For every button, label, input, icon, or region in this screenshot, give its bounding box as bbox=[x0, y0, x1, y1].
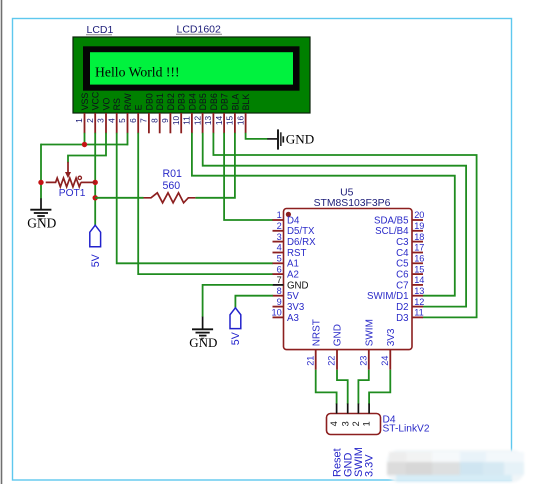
svg-text:10: 10 bbox=[271, 308, 281, 318]
U5 pin 15 stub bbox=[412, 273, 423, 275]
wire U5 pin21 NRST to connector bbox=[316, 370, 337, 404]
svg-text:1: 1 bbox=[74, 118, 84, 123]
connector pin 3 stub bbox=[347, 404, 349, 414]
resistor R01 560 bbox=[144, 193, 196, 203]
U5 pin 12 stub bbox=[412, 306, 423, 308]
U5 pin 24 stub bbox=[389, 350, 391, 370]
svg-text:DB7: DB7 bbox=[220, 93, 230, 110]
svg-text:POT1: POT1 bbox=[59, 188, 86, 199]
svg-text:STM8S103F3P6: STM8S103F3P6 bbox=[314, 198, 391, 209]
svg-text:4: 4 bbox=[106, 118, 116, 123]
svg-text:18: 18 bbox=[414, 232, 424, 242]
svg-text:SCL/B4: SCL/B4 bbox=[375, 226, 409, 237]
wire U5 5V pin8 to power bbox=[235, 296, 273, 308]
svg-text:19: 19 bbox=[414, 221, 424, 231]
svg-text:GND: GND bbox=[286, 131, 314, 146]
U5 pin 10 stub bbox=[273, 316, 284, 318]
LCD pin 10 stub bbox=[180, 113, 182, 133]
LCD pin 14 stub bbox=[223, 113, 225, 133]
LCD pin 13 stub bbox=[212, 113, 214, 133]
wire LCD pin6 E to U5 A2 bbox=[138, 133, 273, 274]
svg-text:5: 5 bbox=[277, 254, 282, 264]
power port 5V (right) bbox=[230, 308, 242, 345]
svg-text:3V3: 3V3 bbox=[386, 328, 397, 346]
svg-text:5V: 5V bbox=[287, 291, 299, 302]
svg-text:24: 24 bbox=[380, 356, 390, 366]
svg-text:2: 2 bbox=[277, 221, 282, 231]
svg-text:C3: C3 bbox=[396, 237, 408, 248]
svg-text:RST: RST bbox=[287, 248, 306, 259]
svg-text:VCC: VCC bbox=[91, 91, 101, 110]
ground GND (below U5) bbox=[189, 317, 217, 350]
svg-text:8: 8 bbox=[277, 286, 282, 296]
svg-text:C4: C4 bbox=[396, 248, 409, 259]
U5 pin 19 stub bbox=[412, 230, 423, 232]
svg-text:6: 6 bbox=[128, 118, 138, 123]
U5 pin 7 stub bbox=[273, 284, 284, 286]
svg-text:11: 11 bbox=[182, 116, 192, 125]
wire down to GND bbox=[40, 144, 42, 199]
svg-text:GND: GND bbox=[333, 324, 344, 346]
svg-text:15: 15 bbox=[225, 116, 235, 126]
wire LCD pin14 DB7 to U5 D4 bbox=[224, 133, 273, 220]
wire U5 pin24 3V3 to connector bbox=[369, 370, 390, 404]
svg-text:16: 16 bbox=[414, 254, 424, 264]
svg-text:GND: GND bbox=[287, 280, 309, 291]
wire LCD pin12 DB5 to U5 D2 bbox=[203, 133, 466, 307]
U5 pin 22 stub bbox=[336, 350, 338, 370]
svg-text:C6: C6 bbox=[396, 270, 408, 281]
LCD pin 9 stub bbox=[169, 113, 171, 133]
wire U5 pin23 SWIM to connector bbox=[358, 370, 368, 404]
svg-text:5V: 5V bbox=[90, 253, 102, 267]
svg-text:23: 23 bbox=[358, 356, 368, 366]
label LCD1 bbox=[86, 24, 114, 36]
svg-text:R01: R01 bbox=[163, 168, 183, 180]
svg-text:R/W: R/W bbox=[123, 93, 133, 111]
svg-text:GND: GND bbox=[189, 335, 217, 350]
svg-text:21: 21 bbox=[305, 356, 315, 366]
svg-text:16: 16 bbox=[235, 116, 245, 126]
svg-text:DB3: DB3 bbox=[177, 93, 187, 110]
svg-text:C7: C7 bbox=[396, 280, 408, 291]
svg-text:A1: A1 bbox=[287, 259, 299, 270]
wire GND net horizontal bbox=[41, 144, 128, 146]
svg-text:DB5: DB5 bbox=[198, 93, 208, 110]
junction dot POT1 left bbox=[38, 180, 43, 185]
svg-text:4: 4 bbox=[329, 421, 339, 426]
svg-text:NRST: NRST bbox=[311, 319, 322, 346]
window edge line bbox=[1, 0, 3, 484]
svg-text:SWIM/D1: SWIM/D1 bbox=[367, 291, 408, 302]
U5 pin1 indicator dot bbox=[286, 212, 291, 217]
U5 pin 4 stub bbox=[273, 252, 284, 254]
svg-text:5V: 5V bbox=[230, 331, 242, 345]
wire U5 GND pin7 to ground bbox=[203, 285, 273, 317]
svg-text:22: 22 bbox=[327, 356, 337, 366]
U5 pin 14 stub bbox=[412, 284, 423, 286]
wire LCD pin16 BLK to GND bbox=[246, 133, 268, 139]
U5 pin 18 stub bbox=[412, 241, 423, 243]
U5 pin 9 stub bbox=[273, 306, 284, 308]
svg-text:7: 7 bbox=[277, 275, 282, 285]
svg-text:560: 560 bbox=[163, 180, 181, 192]
svg-text:BLA: BLA bbox=[230, 94, 240, 111]
junction dot POT1 right bbox=[93, 180, 98, 185]
svg-text:VSS: VSS bbox=[80, 93, 90, 111]
svg-text:14: 14 bbox=[214, 116, 224, 126]
LCD pin 3 stub bbox=[105, 113, 107, 133]
svg-text:3: 3 bbox=[340, 421, 350, 426]
wire LCD pin5 R/W down bbox=[127, 133, 129, 146]
svg-text:5: 5 bbox=[117, 118, 127, 123]
wire U5 pin22 GND to connector bbox=[337, 370, 348, 404]
svg-text:E: E bbox=[134, 104, 144, 110]
svg-text:17: 17 bbox=[414, 243, 424, 253]
svg-text:8: 8 bbox=[149, 118, 159, 123]
svg-text:3: 3 bbox=[277, 232, 282, 242]
junction dot node VCC/R01 bbox=[93, 195, 98, 200]
connector D4 ST-LinkV2 body bbox=[327, 414, 381, 435]
svg-text:BLK: BLK bbox=[241, 94, 251, 111]
U5 pin 1 stub bbox=[273, 219, 284, 221]
LCD pin 12 stub bbox=[202, 113, 204, 133]
wire LCD pin2 VCC down to 5V bbox=[94, 133, 96, 225]
wire LCD pin3 VO to POT1 wiper bbox=[68, 133, 106, 163]
svg-text:SWIM: SWIM bbox=[364, 319, 375, 346]
svg-text:7: 7 bbox=[139, 118, 149, 123]
svg-text:2: 2 bbox=[351, 421, 361, 426]
svg-text:U5: U5 bbox=[340, 188, 354, 199]
LCD pin 8 stub bbox=[159, 113, 161, 133]
svg-text:RS: RS bbox=[112, 98, 122, 110]
connector pin 4 stub bbox=[336, 404, 338, 414]
LCD pin 4 stub bbox=[116, 113, 118, 133]
svg-text:DB1: DB1 bbox=[155, 93, 165, 110]
ground GND (bar symbol near LCD) bbox=[267, 129, 314, 149]
svg-text:11: 11 bbox=[414, 308, 424, 318]
wire LCD pin13 DB6 to U5 D3 bbox=[213, 133, 476, 318]
svg-text:12: 12 bbox=[192, 116, 202, 126]
U5 pin 6 stub bbox=[273, 273, 284, 275]
LCD pin 6 stub bbox=[137, 113, 139, 133]
svg-text:3: 3 bbox=[96, 118, 106, 123]
connector pin 2 stub bbox=[357, 404, 359, 414]
watermark blur bbox=[387, 450, 524, 482]
U5 pin 11 stub bbox=[412, 316, 423, 318]
label LCD1602 bbox=[176, 24, 222, 36]
wire LCD pin1 VSS down bbox=[84, 133, 86, 145]
svg-text:15: 15 bbox=[414, 264, 424, 274]
svg-text:2: 2 bbox=[85, 118, 95, 123]
svg-text:9: 9 bbox=[160, 118, 170, 123]
svg-text:A3: A3 bbox=[287, 313, 299, 324]
wire VCC to R01 bbox=[95, 197, 143, 199]
svg-text:DB4: DB4 bbox=[187, 93, 197, 110]
connector pin 1 stub bbox=[368, 404, 370, 414]
svg-text:D2: D2 bbox=[396, 302, 408, 313]
svg-text:1: 1 bbox=[362, 421, 372, 426]
LCD pin 11 stub bbox=[191, 113, 193, 133]
svg-text:9: 9 bbox=[277, 297, 282, 307]
svg-text:D3: D3 bbox=[396, 313, 408, 324]
svg-text:1: 1 bbox=[277, 210, 282, 220]
LCD pin 16 stub bbox=[245, 113, 247, 133]
U5 pin 13 stub bbox=[412, 295, 423, 297]
svg-text:Hello World !!!: Hello World !!! bbox=[95, 64, 180, 79]
U5 pin 16 stub bbox=[412, 262, 423, 264]
U5 pin 2 stub bbox=[273, 230, 284, 232]
svg-text:D4: D4 bbox=[287, 215, 300, 226]
svg-text:4: 4 bbox=[277, 243, 282, 253]
U5 pin 8 stub bbox=[273, 295, 284, 297]
svg-text:VO: VO bbox=[101, 98, 111, 111]
LCD pin 1 stub bbox=[84, 113, 86, 133]
svg-text:DB0: DB0 bbox=[144, 93, 154, 110]
LCD pin 2 stub bbox=[94, 113, 96, 133]
wire LCD pin15 BLA to R01 bbox=[195, 133, 235, 198]
svg-text:6: 6 bbox=[277, 264, 282, 274]
svg-text:DB2: DB2 bbox=[166, 93, 176, 110]
svg-text:14: 14 bbox=[414, 275, 424, 285]
LCD module LCD1 body bbox=[73, 37, 310, 113]
svg-text:3.3V: 3.3V bbox=[364, 454, 376, 477]
U5 pin 21 stub bbox=[315, 350, 317, 370]
svg-text:ST-LinkV2: ST-LinkV2 bbox=[383, 424, 430, 435]
LCD pin 5 stub bbox=[127, 113, 129, 133]
svg-text:13: 13 bbox=[203, 116, 213, 126]
U5 pin 5 stub bbox=[273, 262, 284, 264]
svg-text:SDA/B5: SDA/B5 bbox=[374, 215, 408, 226]
U5 pin 3 stub bbox=[273, 241, 284, 243]
ground GND (below POT1) bbox=[27, 198, 56, 230]
svg-text:A2: A2 bbox=[287, 270, 299, 281]
U5 pin 17 stub bbox=[412, 252, 423, 254]
op-amp U5 body STM8S103F3P6 bbox=[284, 209, 413, 350]
wire LCD pin4 RS to U5 A1 bbox=[117, 133, 273, 263]
U5 pin 23 stub bbox=[368, 350, 370, 370]
LCD pin 7 stub bbox=[148, 113, 150, 133]
LCD pin 15 stub bbox=[234, 113, 236, 133]
wire LCD pin11 DB4 to U5 SWIM/D1 bbox=[192, 133, 455, 296]
svg-text:3V3: 3V3 bbox=[287, 302, 304, 313]
svg-text:20: 20 bbox=[414, 210, 424, 220]
svg-text:C5: C5 bbox=[396, 259, 408, 270]
svg-text:10: 10 bbox=[171, 116, 181, 126]
svg-text:GND: GND bbox=[27, 216, 56, 231]
power port 5V (left) bbox=[90, 225, 102, 267]
svg-text:D6/RX: D6/RX bbox=[287, 237, 316, 248]
potentiometer POT1 bbox=[46, 162, 95, 187]
svg-text:DB6: DB6 bbox=[209, 93, 219, 110]
svg-text:D5/TX: D5/TX bbox=[287, 226, 315, 237]
junction dot node GND net bbox=[82, 142, 87, 147]
U5 pin 20 stub bbox=[412, 219, 423, 221]
svg-text:12: 12 bbox=[414, 297, 424, 307]
svg-text:13: 13 bbox=[414, 286, 424, 296]
